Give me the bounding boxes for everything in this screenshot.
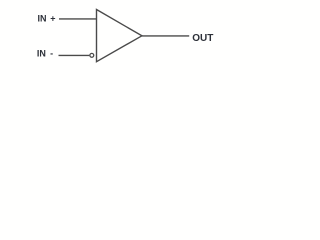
svg-text:OUT: OUT <box>192 33 213 44</box>
svg-text:IN +: IN + <box>38 14 56 24</box>
svg-text:IN -: IN - <box>37 48 53 58</box>
